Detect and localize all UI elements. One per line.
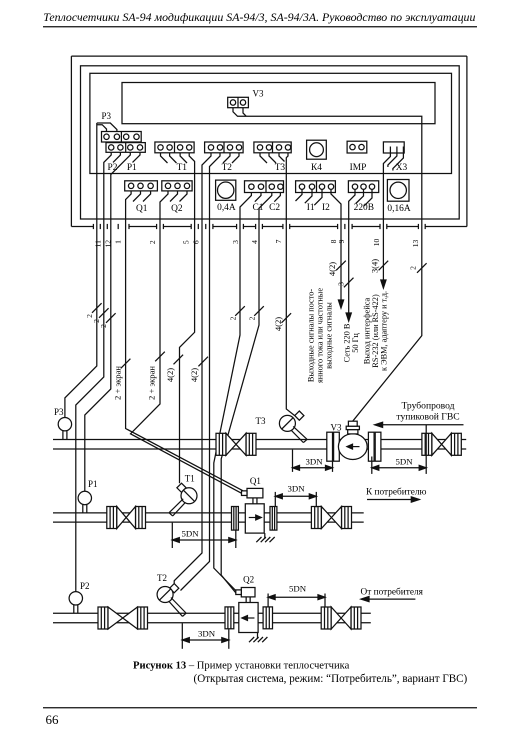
svg-text:T2: T2 [222,163,233,173]
svg-text:3: 3 [231,240,240,244]
svg-text:4: 4 [250,240,259,244]
svg-text:Теплосчетчики SA-94 модификаци: Теплосчетчики SA-94 модификации SA-94/3,… [43,10,475,24]
svg-text:5: 5 [182,240,191,244]
svg-text:I2: I2 [322,203,330,213]
svg-text:Выходные сигналы посто-: Выходные сигналы посто- [307,289,316,382]
svg-text:13: 13 [411,240,420,248]
svg-text:0,4А: 0,4А [217,203,236,213]
svg-text:I1: I1 [307,203,315,213]
svg-text:P3: P3 [54,407,64,417]
svg-text:2: 2 [409,266,418,270]
svg-text:7: 7 [274,239,283,243]
svg-text:V3: V3 [253,89,264,99]
svg-text:3: 3 [337,282,346,286]
svg-text:4(2): 4(2) [165,368,175,382]
svg-text:3DN: 3DN [287,483,305,493]
svg-text:5DN: 5DN [289,584,307,594]
svg-text:T2: T2 [157,573,167,583]
svg-text:11: 11 [94,240,103,248]
svg-text:T3: T3 [256,416,266,426]
svg-text:3DN: 3DN [198,629,216,639]
svg-text:2 + экран: 2 + экран [112,366,122,400]
svg-text:к ЭВМ, адаптеру и т.д.: к ЭВМ, адаптеру и т.д. [380,291,389,371]
svg-text:2: 2 [85,314,94,318]
svg-text:T1: T1 [185,474,195,484]
svg-text:выходные сигналы: выходные сигналы [325,302,334,369]
svg-text:От потребителя: От потребителя [361,587,424,598]
svg-text:4(2): 4(2) [327,262,337,276]
svg-text:янного тока или частотные: янного тока или частотные [316,288,325,383]
svg-text:тупиковой ГВС: тупиковой ГВС [396,412,459,423]
svg-text:66: 66 [46,712,60,727]
svg-text:Q1: Q1 [136,204,148,214]
svg-text:V3: V3 [331,423,342,433]
svg-text:2: 2 [229,316,238,320]
svg-text:P2: P2 [80,581,90,591]
svg-text:220В: 220В [354,203,374,213]
svg-text:9: 9 [337,239,346,243]
svg-text:К потребителю: К потребителю [366,487,427,498]
svg-text:IMP: IMP [350,163,367,173]
svg-text:6: 6 [192,240,201,244]
svg-text:2 + экран: 2 + экран [146,366,156,400]
svg-text:P1: P1 [127,163,137,173]
svg-text:Сеть 220 В: Сеть 220 В [343,323,352,362]
svg-text:1: 1 [114,240,123,244]
svg-text:Выход интерфейса: Выход интерфейса [362,297,371,364]
svg-text:3(4): 3(4) [370,259,380,273]
svg-text:2: 2 [248,316,257,320]
svg-text:2: 2 [99,324,108,328]
svg-text:5DN: 5DN [181,528,199,538]
svg-text:50 Гц: 50 Гц [351,333,360,353]
svg-text:Q2: Q2 [243,575,254,585]
svg-text:10: 10 [372,239,381,247]
svg-text:2: 2 [148,240,157,244]
svg-text:Q1: Q1 [250,476,261,486]
svg-text:(Открытая система, режим: “Пот: (Открытая система, режим: “Потребитель”,… [194,673,468,685]
svg-text:К4: К4 [311,163,322,173]
svg-text:Q2: Q2 [171,204,183,214]
svg-text:3DN: 3DN [305,456,323,466]
svg-text:Рисунок 13 – Пример установки: Рисунок 13 – Пример установки теплосчетч… [133,661,350,672]
svg-text:Трубопровод: Трубопровод [401,401,454,412]
svg-text:4(2): 4(2) [189,368,199,382]
svg-text:4(2): 4(2) [273,317,283,331]
svg-text:5DN: 5DN [395,456,413,466]
svg-text:2: 2 [92,319,101,323]
svg-text:0,16А: 0,16А [387,204,410,214]
svg-text:P3: P3 [102,111,112,121]
svg-text:C2: C2 [269,203,280,213]
svg-text:T1: T1 [177,163,188,173]
svg-text:T3: T3 [275,163,286,173]
svg-text:P1: P1 [88,479,98,489]
svg-text:P2: P2 [108,163,118,173]
svg-text:RS-232 (или RS-422): RS-232 (или RS-422) [371,294,380,368]
